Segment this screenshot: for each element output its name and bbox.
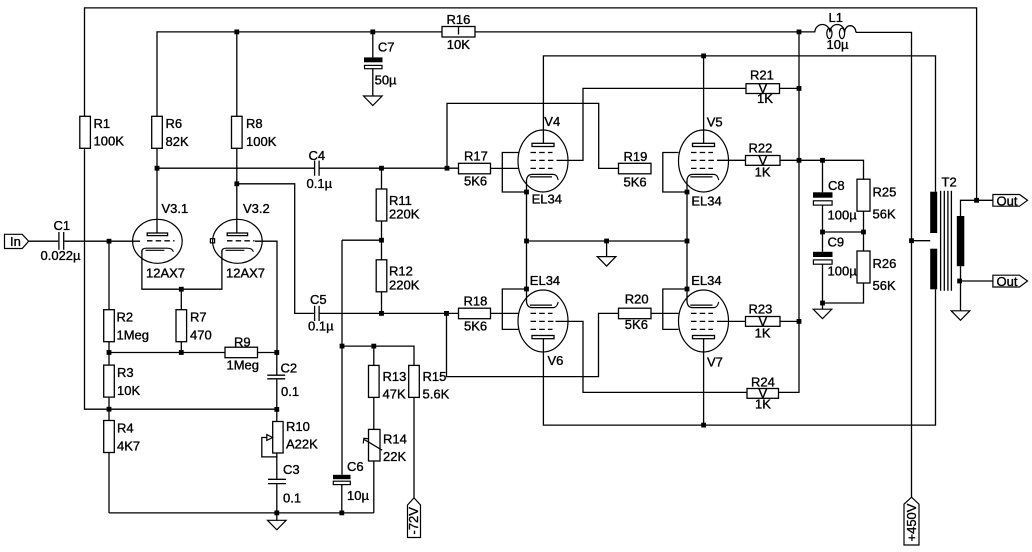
svg-text:0.022µ: 0.022µ (41, 248, 82, 263)
junction: input node (107, 239, 112, 244)
resistor R8 (232, 116, 277, 149)
resistor R24 (747, 375, 779, 412)
wire: V7 cathode column (686, 241, 688, 302)
resistor R6 (152, 116, 189, 149)
wire: ground stem below C3 (276, 513, 278, 520)
svg-text:100µ: 100µ (828, 207, 858, 222)
svg-text:L1: L1 (829, 10, 843, 25)
wire: C7 bottom lead to ground (372, 69, 374, 96)
wire: R3 leads (108, 353, 110, 366)
ground below T2 secondary (951, 311, 970, 321)
svg-text:R13: R13 (383, 369, 407, 384)
svg-text:12AX7: 12AX7 (226, 266, 265, 281)
wire: EL34 cathode rail y=241 (527, 240, 688, 242)
svg-text:R6: R6 (166, 116, 183, 131)
svg-text:R16: R16 (447, 12, 471, 27)
wire: NFB top rail from R1 top to output (85, 8, 977, 200)
svg-text:EL34: EL34 (532, 192, 562, 207)
ground below C9 (813, 309, 832, 319)
wire: R4 bottom to bottom rail (108, 453, 110, 513)
wire: C6 bottom lead (341, 485, 343, 513)
svg-text:V6: V6 (548, 353, 564, 368)
svg-text:0.1: 0.1 (281, 384, 299, 399)
wire: R11/R12 midpoint to bias column (342, 239, 382, 241)
trimmer R14 (363, 429, 407, 464)
wire: R2 bottom lead (108, 342, 110, 353)
resistor R23 (746, 301, 781, 340)
wire: C8/C9 midpoint link to R25/R26 midpoint (823, 231, 864, 233)
wire: V4 cathode column (526, 181, 528, 242)
svg-text:EL34: EL34 (691, 273, 721, 288)
svg-text:R23: R23 (749, 301, 773, 316)
wire: C3 bottom to bottom rail (276, 484, 278, 513)
wire: V5 suppressor tie (663, 153, 687, 193)
wire: ground stem below C9 (822, 303, 824, 309)
wire: secondary bottom to lower Out (961, 280, 993, 282)
wire: C7 top lead (372, 32, 374, 58)
tube V4 EL34 (518, 114, 568, 207)
tube V3.2 12AX7 (210, 201, 269, 281)
wire: anode bottom rail V6 to T2 primary bottom (543, 289, 935, 425)
junction: C7 tap on B+ rail (370, 30, 375, 35)
svg-text:R24: R24 (751, 375, 775, 390)
port In (5, 234, 29, 249)
svg-text:10µ: 10µ (827, 37, 849, 52)
junction: C3 ground node on bottom rail (274, 511, 279, 516)
junction: V4 cathode on cathode rail (524, 239, 529, 244)
svg-text:T2: T2 (942, 174, 957, 189)
wire: anode rail y=56 V4 to T2 primary top (543, 56, 935, 192)
svg-text:56K: 56K (873, 207, 896, 222)
junction: R7 bottom on 352 rail (179, 350, 184, 355)
junction: C2 bottom / R10 top node (274, 407, 279, 412)
wire: C8 bottom to midpoint (822, 205, 824, 232)
svg-text:4K7: 4K7 (117, 439, 140, 454)
resistor R25 (857, 179, 896, 221)
wire: V3.2 anode tap to C5 (237, 184, 314, 314)
wire: C9 top lead (822, 232, 824, 252)
svg-text:470: 470 (190, 328, 212, 343)
wire: T2 secondary top to Out (961, 200, 993, 216)
svg-text:V7: V7 (707, 355, 723, 370)
svg-text:-72V: -72V (406, 507, 421, 535)
junction: R12 bottom on C5 line (379, 311, 384, 316)
junction: R20 branch on C5 line (444, 311, 449, 316)
svg-text:100K: 100K (94, 134, 125, 149)
svg-text:EL34: EL34 (691, 194, 721, 209)
junction: R21 on screen column (797, 86, 802, 91)
svg-text:5K6: 5K6 (624, 175, 647, 190)
junction: bias column at bias line (340, 344, 345, 349)
wire: C2 bottom lead (276, 379, 278, 409)
svg-text:V3.1: V3.1 (162, 201, 189, 216)
junction: R7 top on V3 cathode rail (179, 287, 184, 292)
capacitor C6 electrolytic (333, 459, 369, 503)
transformer T2 (930, 174, 964, 290)
wire: V7 suppressor tie (663, 289, 687, 329)
resistor R22 (746, 140, 781, 179)
wire: R7 top lead (180, 289, 182, 310)
capacitor C8 electrolytic (813, 178, 857, 222)
resistor R3 (104, 365, 141, 398)
wire: R4 top lead (108, 409, 110, 420)
wire: R11 bottom to R12 top through midpoint (381, 221, 383, 260)
svg-text:R2: R2 (117, 310, 134, 325)
wire: R17 right to V4 grid (491, 167, 519, 169)
svg-text:R25: R25 (873, 185, 897, 200)
wire: R20 right to V7 grid (651, 312, 679, 314)
svg-text:12AX7: 12AX7 (146, 266, 185, 281)
tube V7 EL34 (679, 273, 729, 370)
svg-text:A22K: A22K (286, 437, 318, 452)
svg-text:R8: R8 (246, 116, 263, 131)
svg-text:1K: 1K (757, 91, 773, 106)
svg-text:R26: R26 (873, 256, 897, 271)
wire: input line from C1 to V3.1 grid (64, 240, 140, 242)
resistor R12 (376, 260, 419, 293)
wire: V6 screen to R24 left (556, 321, 748, 392)
svg-text:5K6: 5K6 (464, 174, 487, 189)
resistor R13 (369, 365, 407, 401)
wire: rail y=352.5 right of R9 (258, 352, 277, 354)
junction: R2 bottom on 352 rail (107, 350, 112, 355)
svg-text:C3: C3 (283, 462, 300, 477)
svg-text:V3.2: V3.2 (243, 201, 270, 216)
capacitor C7 electrolytic (364, 39, 397, 87)
wire: R19 route to C4 node (447, 103, 619, 168)
svg-text:10K: 10K (117, 383, 140, 398)
junction: V4 cathode/g3 tie (524, 190, 529, 195)
svg-text:R12: R12 (389, 264, 413, 279)
wire: B+ rail y=32 right part (R16 to L1 and +450V column) (475, 31, 815, 33)
junction: V5 anode on anode rail (701, 54, 706, 59)
resistor R18 (459, 294, 491, 334)
wire: R10 bottom to C3 (276, 453, 278, 479)
svg-text:R10: R10 (286, 419, 310, 434)
capacitor C4 (307, 148, 333, 191)
ground center cathode rail (597, 257, 616, 267)
wire: R7 bottom lead (180, 342, 182, 353)
resistor R2 (104, 310, 149, 343)
svg-text:R22: R22 (749, 140, 773, 155)
resistor R21 (746, 68, 780, 107)
wire: B+ rail y=32 left part (R6 top to R16) (157, 32, 442, 116)
wire: center ground stem (606, 241, 608, 257)
svg-text:R15: R15 (423, 369, 447, 384)
svg-text:1K: 1K (755, 396, 771, 411)
capacitor C9 electrolytic (813, 235, 857, 279)
junction: V5 cathode/g3 tie (685, 190, 690, 195)
wire: V3.2 grid to R9/C2 node (255, 241, 277, 352)
wire: C9 bottom lead to ground node (822, 264, 824, 303)
svg-text:5.6K: 5.6K (423, 386, 450, 401)
svg-text:C6: C6 (347, 459, 364, 474)
wire: bottom rail y=513 (109, 512, 374, 514)
resistor R1 (80, 116, 124, 149)
supply flag +450V (904, 497, 919, 545)
wire: R10 top lead (276, 409, 278, 421)
ground below C7 (364, 96, 383, 106)
wire: R13 top lead (373, 346, 375, 365)
wire: R1 bottom to NFB node line y=409 (85, 148, 277, 409)
wire: C4 line left segment (157, 167, 314, 169)
capacitor C2 (267, 361, 299, 400)
svg-text:220K: 220K (389, 207, 420, 222)
wire: R20 route to C5 node (447, 313, 619, 376)
junction: L1/screen column on B+ rail (797, 30, 802, 35)
svg-text:1Meg: 1Meg (117, 328, 150, 343)
svg-text:220K: 220K (389, 278, 420, 293)
wire: T2 secondary bottom to ground (960, 266, 962, 311)
svg-text:R7: R7 (190, 310, 207, 325)
svg-text:50µ: 50µ (375, 73, 397, 88)
junction: C9 ground node (820, 301, 825, 306)
junction: R11/R12 midpoint (379, 238, 384, 243)
svg-text:5K6: 5K6 (625, 317, 648, 332)
svg-text:R1: R1 (94, 116, 111, 131)
svg-text:0.1µ: 0.1µ (307, 176, 333, 191)
wire: V5 screen to R22 (717, 159, 746, 161)
resistor R15 (409, 365, 450, 401)
svg-text:R14: R14 (383, 432, 407, 447)
svg-text:R21: R21 (750, 68, 774, 83)
wire: V7 screen to R23 (717, 320, 746, 322)
wire: V4 screen up to R21 (557, 88, 747, 160)
wire: V5 cathode column (686, 181, 688, 242)
wire: R21 right lead (780, 87, 800, 89)
resistor R17 (459, 148, 491, 188)
junction: V7 anode on bottom anode rail (701, 423, 706, 428)
resistor R11 (376, 189, 419, 222)
junction: C8/C9 midpoint (820, 230, 825, 235)
svg-text:82K: 82K (166, 134, 189, 149)
svg-text:C4: C4 (309, 148, 326, 163)
junction: R3/R4 node (107, 407, 112, 412)
wire: R8 bottom column to V3.2 anode (236, 116, 238, 233)
wire: V5 anode lead (703, 56, 705, 143)
resistor R19 (619, 149, 652, 190)
wire: R15 bottom to -72V flag (413, 398, 415, 498)
junction: secondary bottom node (957, 279, 962, 284)
svg-text:100µ: 100µ (828, 264, 858, 279)
junction: R11 top on C4 line (379, 166, 384, 171)
wire: screen supply column x=799 down to R24 line (779, 32, 800, 393)
svg-text:C9: C9 (828, 235, 845, 250)
resistor R20 (619, 292, 652, 333)
wire: R8 top column (236, 32, 238, 116)
junction: V7 cathode on cathode rail (685, 239, 690, 244)
svg-text:+450V: +450V (904, 503, 919, 541)
wire: R14 bottom to bottom rail (373, 461, 375, 513)
wire: V4 suppressor tie (502, 153, 526, 193)
svg-text:R19: R19 (624, 149, 648, 164)
svg-text:0.1: 0.1 (283, 490, 301, 505)
tube V3.1 12AX7 (133, 201, 189, 281)
svg-text:C7: C7 (378, 39, 395, 54)
wire: C4 line right segment to R17 (320, 167, 459, 169)
wire: V6 suppressor tie (502, 289, 526, 329)
capacitor C3 (268, 462, 301, 505)
junction: V6 cathode/g3 tie (524, 287, 529, 292)
wire: R26 bottom to ground node (823, 283, 864, 303)
wire: bias column down to C6 (341, 240, 343, 475)
svg-text:V5: V5 (707, 115, 723, 130)
wire: R11 top lead (381, 168, 383, 189)
svg-text:C8: C8 (828, 178, 845, 193)
svg-text:V4: V4 (544, 114, 560, 129)
wire: R3 bottom lead (108, 398, 110, 410)
junction: T2 center tap on +450V column (909, 238, 914, 243)
svg-text:EL34: EL34 (530, 273, 560, 288)
resistor R7 (176, 310, 212, 343)
svg-text:C1: C1 (54, 218, 71, 233)
svg-text:C2: C2 (281, 361, 298, 376)
inductor L1 (815, 10, 856, 52)
svg-text:47K: 47K (383, 386, 406, 401)
wire: L1 right lead to +450V column down to flag (856, 32, 912, 497)
junction: V7 cathode/g3 tie (685, 287, 690, 292)
svg-text:100K: 100K (246, 134, 277, 149)
svg-text:10µ: 10µ (347, 488, 369, 503)
junction: C8 tap (820, 158, 825, 163)
wire: input line from In port to C1 (29, 240, 59, 242)
svg-text:Out: Out (997, 274, 1018, 289)
wire: R12 bottom lead (381, 292, 383, 314)
svg-text:0.1µ: 0.1µ (308, 319, 334, 334)
junction: C6 bottom on bottom rail (339, 511, 344, 516)
wire: rail y=352.5 left of R9 (109, 352, 225, 354)
svg-text:R20: R20 (625, 292, 649, 307)
tube V5 EL34 (679, 115, 729, 209)
svg-text:1K: 1K (755, 325, 771, 340)
potentiometer R10 (262, 419, 318, 457)
svg-text:R17: R17 (464, 148, 488, 163)
junction: V3.1 anode node on C4 line (155, 166, 160, 171)
port Out lower (993, 274, 1028, 289)
junction: R23 on screen column (797, 319, 802, 324)
svg-text:5K6: 5K6 (464, 319, 487, 334)
capacitor C1 (41, 218, 82, 263)
svg-text:Out: Out (997, 193, 1018, 208)
wire: R23 right lead (780, 320, 799, 322)
junction: center ground on cathode rail (604, 239, 609, 244)
junction: R8 top on B+ rail (234, 30, 239, 35)
junction: R13 top on bias line (371, 344, 376, 349)
wire: R18 right to V6 grid (491, 312, 519, 314)
wire: bias line to R13 and R15 (342, 346, 414, 365)
svg-text:56K: 56K (873, 278, 896, 293)
svg-text:22K: 22K (383, 449, 406, 464)
wire: R26 top lead (863, 232, 865, 251)
svg-text:C5: C5 (310, 292, 327, 307)
port Out upper (993, 193, 1028, 208)
wire: V6 cathode column (526, 241, 528, 302)
wire: C2 top lead (276, 353, 278, 375)
wire: T2 center tap (912, 240, 931, 242)
junction: V3.2 anode tap (234, 181, 239, 186)
wire: C8 top lead (822, 160, 824, 192)
junction: R9 right / C2 node (274, 350, 279, 355)
wire: R2 column from input node (108, 241, 110, 310)
svg-text:R9: R9 (234, 334, 251, 349)
junction: R25/R26 midpoint (861, 230, 866, 235)
svg-text:R3: R3 (117, 365, 134, 380)
wire: R6 bottom column to V3.1 anode (156, 148, 158, 233)
wire: V3 cathode rail (142, 251, 222, 290)
svg-text:10K: 10K (447, 37, 470, 52)
svg-text:1K: 1K (755, 164, 771, 179)
resistor R26 (857, 251, 896, 293)
wire: R25 bottom lead (863, 211, 865, 232)
junction: R19 branch on C4 line (445, 166, 450, 171)
svg-text:R4: R4 (117, 421, 134, 436)
wire: R22 right to C8/R25 branch (780, 160, 864, 179)
tube V6 EL34 (518, 273, 568, 368)
resistor R4 (104, 421, 140, 454)
junction: NFB takeoff at secondary top (974, 198, 979, 203)
junction: R22 on screen column (797, 158, 802, 163)
wire: C5 line right to R18 (320, 312, 459, 314)
capacitor C5 (308, 292, 334, 334)
supply flag -72V (406, 498, 421, 538)
wire: R13 bottom to R14 top (373, 398, 375, 430)
resistor R9 (225, 334, 259, 372)
svg-text:In: In (10, 234, 21, 249)
svg-text:R18: R18 (464, 294, 488, 309)
wire: V7 anode lead (703, 338, 705, 425)
svg-text:1Meg: 1Meg (227, 358, 260, 373)
ground below C3 (268, 520, 287, 530)
resistor R16 (442, 12, 475, 52)
